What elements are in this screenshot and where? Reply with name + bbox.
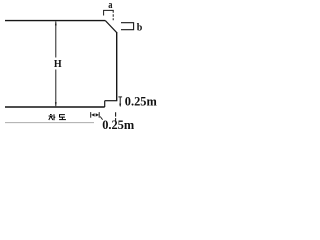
dimension H arrowhead top (55, 21, 57, 25)
label cha (Korean roadway char 1) (49, 114, 56, 120)
dimension bottom arrow right-pointing (96, 113, 99, 116)
dimension H vertical line lower segment (55, 70, 57, 107)
leader to bottom label (100, 117, 102, 120)
svg-text:b: b (137, 22, 143, 33)
dimension b bracket (121, 23, 134, 30)
label do (Korean roadway char 2) (59, 115, 66, 120)
dimension bottom right tick (98, 112, 100, 118)
dimension bottom left tick (90, 112, 92, 118)
dimension H arrowhead bottom (55, 102, 57, 106)
dimension a right tick dashed (112, 10, 114, 20)
wire right wall vertical (116, 32, 118, 101)
wire chamfer diagonal (105, 21, 116, 33)
wire lower gray line (5, 122, 94, 124)
dimension H vertical line upper segment (55, 21, 57, 57)
svg-text:0.25m: 0.25m (102, 118, 135, 132)
wire curb face vertical (104, 101, 106, 107)
dimension bottom arrow left-pointing (91, 113, 94, 116)
wire step top horizontal (105, 100, 118, 102)
dimension a bracket bar (104, 10, 114, 15)
dimension 0.25m vertical line (119, 97, 121, 107)
dimension 0.25m top crossbar (118, 96, 122, 98)
wire road surface line (5, 106, 105, 108)
extension dash below wall (115, 112, 117, 121)
svg-text:H: H (54, 59, 62, 70)
svg-text:a: a (108, 0, 113, 11)
svg-text:0.25m: 0.25m (125, 95, 158, 109)
wire top surface line (5, 20, 105, 22)
dimension 0.25m bottom arrowhead (119, 104, 121, 107)
